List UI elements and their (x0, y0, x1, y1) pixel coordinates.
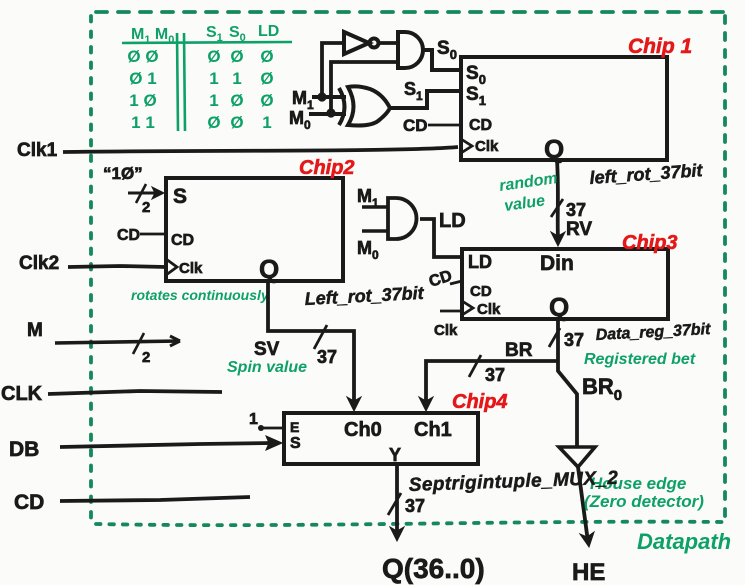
wire SV from U2 Q down to U4 Ch0 (268, 281, 361, 411)
svg-text:CD: CD (171, 232, 194, 249)
svg-text:Ch1: Ch1 (414, 419, 452, 441)
wire CLK to U3 (440, 310, 462, 313)
xor gate G3 (339, 86, 390, 125)
svg-text:Chip4: Chip4 (452, 391, 508, 413)
wire to HE (578, 467, 594, 547)
wire M0 to G4 (362, 229, 388, 233)
bus slash 37 on SV (314, 325, 327, 349)
bus slash 37 on Q3 (549, 328, 560, 347)
bus slash 37 on Y (388, 493, 401, 515)
wire 1 to U4 E (258, 425, 264, 431)
wire CD to U2 (140, 233, 166, 236)
svg-text:Ø: Ø (207, 113, 220, 132)
svg-text:Ø Ø: Ø Ø (127, 47, 158, 66)
wire M bus with arrow (55, 336, 180, 346)
wire CD to U1 (428, 124, 461, 127)
wire inverter output to AND G2 (379, 41, 398, 45)
wire M1 up to inverter (322, 43, 344, 97)
svg-text:1: 1 (262, 113, 271, 132)
svg-text:LD: LD (439, 210, 466, 232)
svg-text:LD: LD (468, 252, 492, 272)
svg-text:RV: RV (566, 219, 592, 240)
svg-text:(Zero detector): (Zero detector) (584, 492, 704, 511)
svg-text:Ø: Ø (230, 47, 243, 66)
svg-text:Ø: Ø (260, 91, 273, 110)
wire RV from U1 Q to U3 Din (551, 160, 565, 246)
table rule lines (122, 33, 292, 131)
svg-text:SV: SV (254, 339, 280, 360)
svg-text:CD: CD (469, 117, 492, 134)
truth table (122, 23, 292, 132)
table rows (127, 47, 273, 132)
annotation random value (498, 170, 558, 215)
svg-text:BR: BR (505, 340, 533, 361)
svg-text:Y: Y (389, 445, 401, 465)
svg-text:Ø: Ø (260, 69, 273, 88)
node CD (14, 491, 44, 514)
svg-text:Ch0: Ch0 (344, 419, 382, 441)
svg-text:Ø: Ø (230, 113, 243, 132)
svg-text:M: M (27, 320, 43, 341)
svg-text:DB: DB (9, 438, 39, 461)
svg-text:37: 37 (485, 365, 505, 385)
wire CLK2 to U2 clk pin (68, 266, 166, 267)
svg-text:37: 37 (405, 496, 425, 516)
svg-text:Clk: Clk (477, 301, 501, 318)
junction dot M0 (326, 108, 335, 117)
svg-text:1: 1 (209, 91, 218, 110)
svg-text:1 Ø: 1 Ø (129, 91, 156, 110)
bus slash 37 on RV (551, 199, 563, 217)
svg-text:Q: Q (544, 134, 564, 164)
svg-text:CD: CD (117, 227, 140, 244)
svg-text:Spin value: Spin value (227, 359, 307, 376)
svg-text:Q: Q (549, 292, 569, 322)
svg-text:Din: Din (540, 252, 574, 275)
svg-text:Ø: Ø (207, 47, 220, 66)
wire Y output (390, 464, 404, 541)
svg-text:Clk: Clk (434, 322, 458, 339)
svg-text:1: 1 (232, 69, 241, 88)
table header M1 M0 S1 S0 LD (131, 23, 279, 46)
svg-text:rotates continuously: rotates continuously (131, 287, 270, 303)
svg-text:Datapath: Datapath (637, 529, 731, 554)
annotation House edge (584, 474, 704, 511)
svg-text:2: 2 (142, 199, 150, 216)
svg-text:Chip 1: Chip 1 (628, 35, 692, 58)
node CLK2 (19, 253, 59, 274)
svg-text:37: 37 (317, 347, 337, 367)
svg-text:LD: LD (258, 23, 279, 40)
wire S0 from G2 to U1 (424, 50, 461, 70)
wire BR from Q3 node to U4 Ch1 (419, 361, 558, 411)
svg-text:Clk2: Clk2 (19, 253, 59, 274)
chip U3 Data_reg_37bit (462, 249, 668, 319)
svg-text:Q: Q (259, 254, 279, 284)
bus slash 2 on M (133, 333, 144, 354)
wire M0 into XOR (309, 112, 346, 116)
zero detector triangle (559, 447, 595, 467)
svg-text:CD: CD (14, 491, 44, 514)
chip U1 left_rot_37bit (461, 57, 667, 160)
svg-text:Ø: Ø (230, 91, 243, 110)
svg-text:Q(36..0): Q(36..0) (382, 553, 485, 584)
node CLK (1, 383, 43, 405)
svg-text:1: 1 (209, 69, 218, 88)
wire M1 into XOR (312, 95, 346, 99)
svg-text:1 1: 1 1 (131, 113, 155, 132)
bus slash 37 on BR (469, 355, 481, 377)
svg-text:37: 37 (566, 200, 586, 220)
wire CLK1 to U1 clk pin (63, 147, 458, 152)
wire CD to U3 (450, 281, 462, 284)
junction dot M1 (317, 92, 326, 101)
wire CLK stub (48, 391, 222, 394)
inverter G1 (344, 32, 379, 54)
wire S1 from XOR to U1 (390, 91, 461, 108)
svg-text:Ø: Ø (260, 47, 273, 66)
svg-text:“1Ø”: “1Ø” (103, 164, 143, 183)
svg-text:Ø 1: Ø 1 (129, 69, 156, 88)
svg-text:HE: HE (572, 559, 605, 585)
and gate G2 (398, 32, 423, 68)
svg-text:CD: CD (403, 116, 428, 135)
svg-text:Chip2: Chip2 (299, 157, 355, 179)
svg-text:37: 37 (564, 330, 584, 350)
wire CD stub (60, 497, 250, 501)
svg-text:E: E (290, 419, 299, 435)
node DB (9, 438, 39, 461)
wire Q3 down from U3 (558, 319, 577, 446)
wire S input arrow into U2 (128, 187, 164, 199)
svg-text:Clk1: Clk1 (17, 140, 58, 161)
chip U2 Left_rot_37bit (166, 178, 343, 281)
node CLK1 (17, 140, 58, 161)
svg-text:Registered bet: Registered bet (584, 351, 696, 368)
svg-text:1: 1 (249, 411, 258, 428)
svg-text:2: 2 (142, 349, 150, 366)
svg-text:CLK: CLK (1, 383, 43, 405)
wire LD from G4 to U3 (420, 219, 462, 257)
svg-text:S: S (173, 185, 187, 208)
svg-text:Chip3: Chip3 (622, 232, 678, 254)
svg-text:Clk: Clk (475, 138, 499, 155)
chip U4 Septrigintuple_MUX_2 (284, 413, 478, 464)
wire DB to U4 S input (60, 436, 282, 450)
svg-text:CD: CD (470, 283, 492, 300)
and gate G4 (388, 198, 416, 239)
svg-text:Clk: Clk (179, 260, 203, 277)
node M (27, 320, 43, 341)
wire M0 up to AND G2 lower input (331, 62, 398, 113)
wire M1 to G4 (362, 205, 388, 209)
bus slash 2 on S input (136, 184, 146, 203)
datapath boundary dashed border (91, 12, 725, 525)
svg-text:S: S (290, 435, 301, 452)
